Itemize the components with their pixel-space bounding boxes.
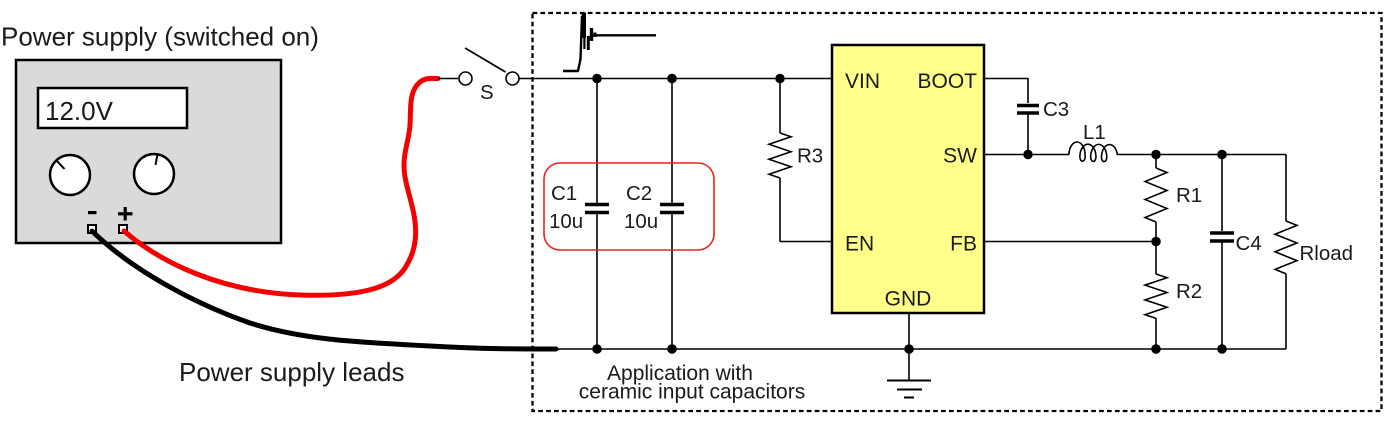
knob right: [134, 154, 174, 194]
capacitor C1: [585, 79, 609, 350]
terminal minus: [88, 211, 97, 233]
svg-text:VIN: VIN: [845, 70, 880, 93]
svg-text:R1: R1: [1176, 184, 1202, 207]
wire: GND pin to ground: [908, 313, 910, 380]
power supply box: [16, 60, 281, 243]
capacitor C2: [660, 79, 684, 350]
label: C2 10u: [624, 182, 658, 233]
node: bottom rail / GND pin: [904, 344, 914, 354]
pin label BOOT: [917, 70, 977, 93]
label: R1: [1176, 184, 1202, 207]
resistor R2: [1145, 242, 1167, 350]
svg-text:ceramic input capacitors: ceramic input capacitors: [579, 381, 805, 404]
node: junction top rail / R3: [775, 74, 785, 84]
dashed application boundary box: [533, 13, 1382, 411]
pin label VIN: [845, 70, 880, 93]
voltage display 12.0V: [38, 88, 187, 128]
label: Power supply leads: [179, 357, 404, 387]
node: junction top rail / C2: [667, 74, 677, 84]
svg-text:R2: R2: [1176, 280, 1202, 303]
IC U1 (regulator): [832, 45, 984, 313]
waveform scribble (input voltage transient): [563, 15, 656, 71]
capacitor C3: [1017, 106, 1039, 155]
svg-text:Power supply (switched on): Power supply (switched on): [1, 22, 319, 52]
label: R2: [1176, 280, 1202, 303]
switch S lever: [465, 48, 506, 72]
switch S contact left: [459, 72, 472, 85]
wire: bottom ground rail: [556, 348, 1286, 350]
svg-text:12.0V: 12.0V: [45, 96, 114, 126]
svg-text:EN: EN: [845, 233, 874, 256]
red power lead: [124, 78, 438, 295]
label: S: [480, 81, 494, 104]
node: bottom rail / R2: [1151, 344, 1161, 354]
black power lead: [92, 231, 556, 349]
svg-text:GND: GND: [885, 288, 932, 311]
node: output node / C4: [1217, 150, 1227, 160]
node: FB junction: [1151, 237, 1161, 247]
ground symbol: [887, 381, 931, 398]
pin label GND: [885, 288, 932, 311]
node: bottom rail / C4: [1217, 344, 1227, 354]
label: R3: [797, 145, 823, 168]
label: C3: [1043, 98, 1069, 121]
svg-text:Rload: Rload: [1300, 242, 1354, 265]
resistor R3: [769, 79, 791, 242]
pin label EN: [845, 233, 874, 256]
label: Power supply (switched on): [1, 22, 319, 52]
svg-text:C3: C3: [1043, 98, 1069, 121]
label: Application with ceramic input capacitors: [579, 362, 805, 404]
label: C4: [1236, 232, 1262, 255]
label: C1 10u: [549, 182, 583, 233]
label: Rload: [1300, 242, 1354, 265]
switch S contact right: [506, 72, 519, 85]
svg-text:C1: C1: [551, 182, 577, 205]
wire: red lead to switch contact: [438, 78, 458, 80]
svg-text:C4: C4: [1236, 232, 1262, 255]
knob left: [50, 155, 90, 195]
svg-text:Power supply leads: Power supply leads: [179, 357, 404, 387]
resistor Rload: [1275, 155, 1297, 350]
pin label FB: [950, 233, 977, 256]
wire: R3 to EN pin: [780, 241, 832, 243]
node: SW / C3 junction: [1023, 150, 1033, 160]
red highlight ellipse around input capacitors: [544, 163, 714, 250]
svg-text:FB: FB: [950, 233, 977, 256]
capacitor C4: [1210, 155, 1234, 350]
node: bottom rail / C2: [667, 344, 677, 354]
wire: top input rail: [519, 78, 832, 80]
svg-text:10u: 10u: [549, 210, 583, 233]
node: output node / R1: [1151, 150, 1161, 160]
svg-text:R3: R3: [797, 145, 823, 168]
pin label SW: [943, 145, 977, 168]
svg-text:BOOT: BOOT: [917, 70, 977, 93]
svg-text:S: S: [480, 81, 494, 104]
wire: FB to divider: [984, 241, 1156, 243]
node: junction top rail / C1: [592, 74, 602, 84]
svg-text:L1: L1: [1083, 121, 1106, 144]
svg-text:10u: 10u: [624, 210, 658, 233]
terminal plus: [118, 207, 133, 233]
node: bottom rail / C1: [592, 344, 602, 354]
svg-text:SW: SW: [943, 145, 977, 168]
svg-text:C2: C2: [626, 182, 652, 205]
wire: SW rail: [984, 154, 1286, 156]
resistor R1: [1145, 155, 1167, 242]
inductor L1: [1069, 142, 1117, 162]
label: L1: [1083, 121, 1106, 144]
wire: BOOT to C3: [984, 79, 1028, 104]
